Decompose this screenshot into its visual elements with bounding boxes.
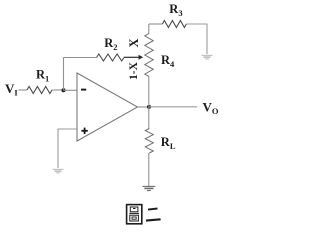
wire bbox=[148, 107, 150, 129]
wire bbox=[186, 24, 207, 54]
node A (inverting input junction) bbox=[62, 88, 66, 92]
resistor R1 bbox=[27, 68, 52, 94]
wire bbox=[149, 106, 197, 108]
ground (R3 return) bbox=[202, 55, 213, 59]
wire bbox=[58, 129, 77, 168]
wire bbox=[148, 153, 150, 186]
resistor R2 bbox=[97, 36, 125, 61]
svg-text:RL: RL bbox=[161, 135, 176, 151]
svg-text:VI: VI bbox=[5, 81, 18, 98]
input label VI bbox=[5, 81, 18, 98]
wire bbox=[64, 57, 97, 59]
ground (RL) bbox=[143, 186, 156, 190]
svg-text:R4: R4 bbox=[161, 53, 175, 69]
svg-text:R1: R1 bbox=[36, 68, 49, 84]
svg-text:VO: VO bbox=[203, 100, 219, 117]
svg-text:R2: R2 bbox=[104, 36, 117, 52]
svg-text:R3: R3 bbox=[169, 2, 182, 18]
resistor R3 bbox=[162, 2, 186, 28]
label X (upper fraction of R4) bbox=[127, 38, 141, 47]
wire bbox=[19, 89, 28, 91]
resistor RL bbox=[145, 129, 176, 154]
wire bbox=[149, 23, 163, 25]
wire bbox=[148, 77, 150, 107]
output label VO bbox=[203, 100, 219, 117]
resistor R4 bbox=[145, 34, 175, 77]
wire bbox=[138, 106, 150, 108]
wire bbox=[63, 57, 65, 90]
wire bbox=[148, 24, 150, 34]
wire bbox=[52, 89, 64, 91]
label 1-X (lower fraction of R4) bbox=[128, 61, 140, 80]
svg-text:1-X: 1-X bbox=[128, 61, 140, 80]
wiper arrow bbox=[124, 55, 143, 60]
svg-text:X: X bbox=[127, 38, 141, 47]
op-amp U1 bbox=[77, 73, 138, 141]
node B (output) bbox=[147, 105, 151, 109]
ground (non-inverting input) bbox=[53, 169, 64, 173]
wire bbox=[64, 89, 78, 91]
caption 圖二 (Figure 2) bbox=[127, 205, 161, 224]
